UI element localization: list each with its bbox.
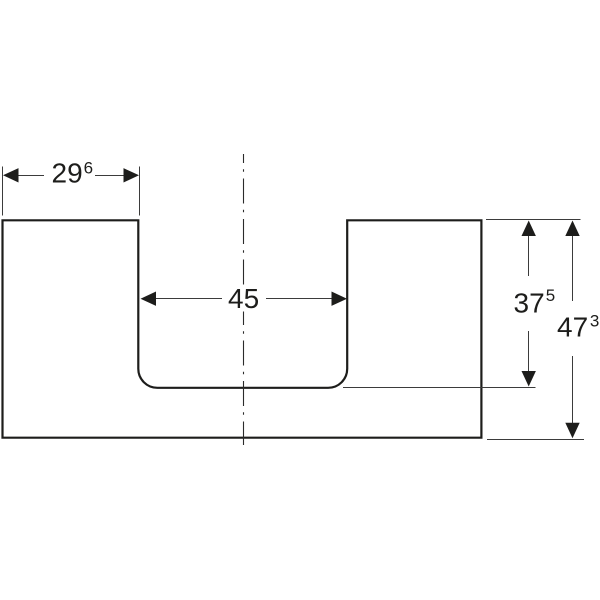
svg-text:5: 5 bbox=[546, 286, 555, 305]
svg-text:6: 6 bbox=[84, 159, 93, 178]
svg-text:29: 29 bbox=[52, 157, 83, 188]
svg-text:45: 45 bbox=[228, 283, 259, 314]
svg-text:3: 3 bbox=[590, 312, 599, 331]
svg-text:47: 47 bbox=[557, 312, 588, 343]
svg-text:37: 37 bbox=[514, 287, 545, 318]
